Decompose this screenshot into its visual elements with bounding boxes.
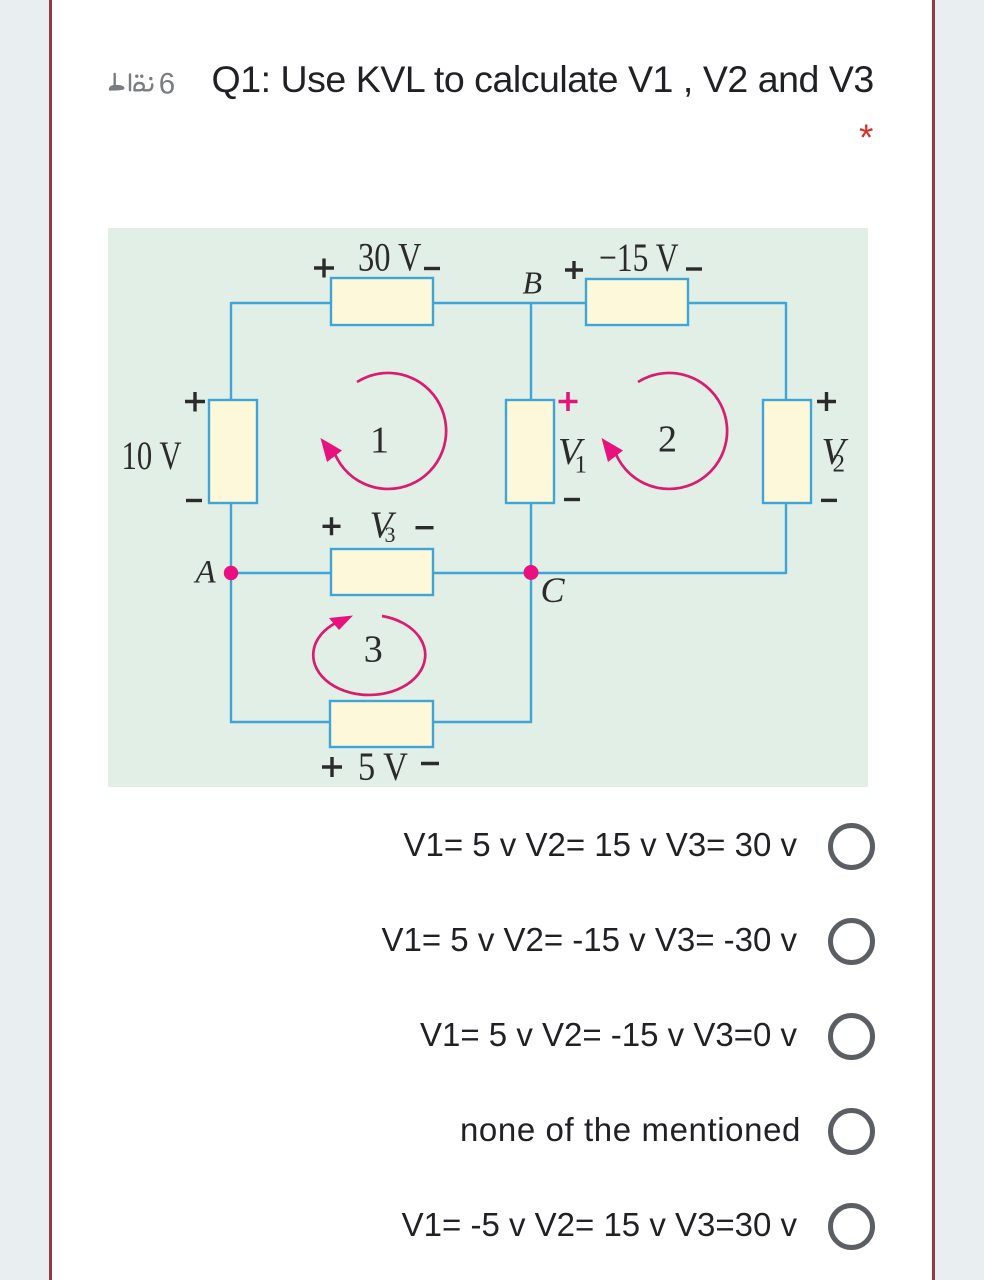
resistor 30V box [331,278,433,325]
left red border line [49,0,52,1280]
wire top-middle horizontal through node B [433,302,586,304]
wire top-right horizontal [688,302,786,304]
plus sign of V3 [323,517,341,535]
minus sign of -15V [686,267,702,270]
wire bottom-right [433,721,532,723]
resistor V2 box [763,400,811,503]
radio 5 [828,1203,875,1250]
minus sign of 5V [421,762,439,765]
plus sign of V2 [817,392,836,411]
svg-text:3: 3 [364,628,383,670]
svg-text:30 V: 30 V [358,235,422,280]
svg-text:3: 3 [385,522,396,547]
plus sign of -15V [565,261,583,279]
svg-text:1: 1 [370,419,389,461]
wire right vertical upper [785,302,787,400]
plus sign of 10V [185,392,205,412]
plus sign of V1 (magenta) [559,392,578,411]
svg-text:2: 2 [658,419,677,461]
resistor -15V box [586,279,688,325]
noon dot [149,77,152,80]
qaf dots [135,75,138,78]
wire V3 to C to right branch [433,572,786,574]
svg-text:B: B [523,265,543,301]
wire left vertical upper [230,302,232,400]
minus sign of V2 [821,499,837,502]
svg-text:10 V: 10 V [122,433,182,478]
alif of qaf cluster [129,75,131,91]
loop 3 arrow arc [313,616,425,695]
noon initial hook [144,85,153,91]
radio 2 [828,918,875,965]
svg-text:2: 2 [833,451,846,478]
radio 1 [828,823,875,870]
svg-text:C: C [541,570,566,610]
loop 1 arrowhead [321,438,343,462]
wire V1 bottom through node C to bottom [530,503,532,723]
resistor V3 box [331,549,433,595]
wire bottom-left [230,721,330,723]
qaf bowl [134,83,143,90]
CIRCUIT PANEL [108,228,868,787]
node A dot [224,566,238,580]
loop 3 arrowhead [329,616,353,631]
answer options [0,828,797,861]
right gutter strip [935,0,984,1280]
Taa (ط): flat loop + tall vertical [109,85,123,90]
radio 3 [828,1013,875,1060]
wire A to V3 [231,572,331,574]
minus sign of 10V [186,499,202,502]
wire left vertical lower (through node A) [230,503,232,723]
minus sign of V1 [564,498,580,501]
svg-text:5 V: 5 V [358,744,408,787]
minus sign of 30V [424,267,440,270]
loop 2 arrow arc [614,373,727,489]
svg-text:A: A [194,555,217,591]
wire right vertical lower [785,503,787,574]
loop 2 arrowhead [602,438,624,462]
resistor V1 box [506,400,554,503]
svg-text:−15 V: −15 V [599,235,679,280]
points label (Arabic "نقاط 6") [105,60,185,100]
wire node B to V1 [530,303,532,400]
svg-text:6: 6 [159,68,175,100]
radio 4 [828,1108,875,1155]
node C dot [524,565,539,580]
required asterisk [859,119,873,156]
panel background [108,228,868,787]
right red border line [932,0,935,1280]
loop 1 arrow arc [333,373,446,489]
source 10V box [209,400,257,503]
left gutter strip [0,0,49,1280]
wire top-left horizontal [231,302,331,304]
source 5V box [330,701,433,747]
svg-text:1: 1 [575,452,588,479]
plus sign of 30V [314,259,334,278]
question title [212,61,874,99]
minus sign of V3 [416,526,434,529]
plus sign of 5V [322,757,342,777]
